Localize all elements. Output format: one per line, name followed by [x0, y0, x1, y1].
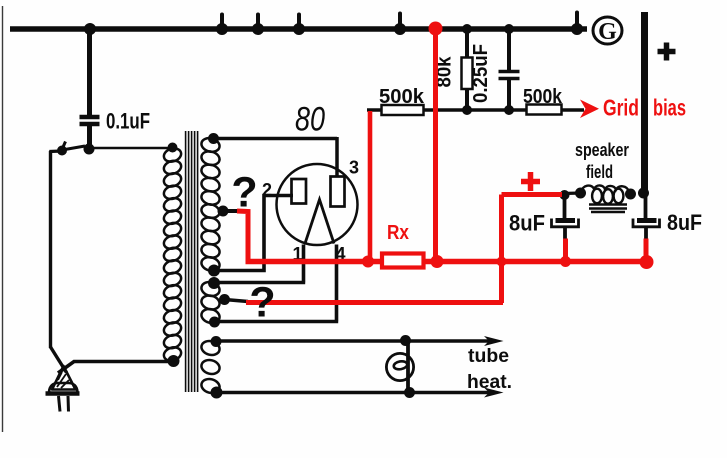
junction: lamp bottom: [404, 387, 415, 398]
red wire: 5V center tap line: [246, 300, 503, 305]
svg-text:G: G: [598, 19, 617, 45]
svg-text:8uF: 8uF: [509, 211, 545, 236]
svg-text:field: field: [586, 161, 613, 182]
junction: 5V winding top tap: [208, 277, 220, 289]
top bus stub tap 3: [297, 15, 301, 30]
junction: field coil left: [575, 188, 586, 199]
red wire: + line to filter caps: [502, 192, 563, 197]
junction: field coil right: [625, 189, 636, 200]
transformer T1 5V winding: [200, 280, 221, 298]
junction: bus at 0.25uF: [504, 24, 514, 34]
wire: top supply bus: [10, 26, 587, 32]
wire: heater top line: [216, 339, 489, 342]
resistor Rx body: [382, 254, 424, 268]
wire: 8uF right top lead: [644, 195, 648, 219]
wire: 80k bottom lead: [465, 88, 469, 110]
red wire: drop from top bus: [433, 29, 438, 262]
tube pin 3 plate: [331, 177, 345, 207]
red junction: top bus: [429, 22, 443, 36]
switch left terminal: [57, 146, 67, 156]
red junction: riser/B- bus: [497, 257, 507, 267]
wire: 0.25uF top lead: [507, 29, 511, 70]
top bus stub tap 1: [220, 15, 224, 30]
junction: 80k/grid line: [462, 105, 472, 115]
svg-text:?: ?: [249, 279, 275, 327]
wire: field coil left lead: [563, 191, 581, 195]
junction: 0.25uF/grid line: [504, 105, 514, 115]
svg-text:0.25uF: 0.25uF: [470, 44, 492, 103]
wire: 80k top lead: [465, 29, 469, 59]
transformer T1 core: [185, 131, 187, 392]
junction: bus tap 3: [293, 23, 305, 35]
svg-text:heat.: heat.: [467, 372, 512, 393]
resistor 500k (right) body: [527, 105, 562, 115]
wire: heater bottom line: [217, 391, 490, 394]
svg-text:Grid: Grid: [603, 95, 639, 121]
junction: heater winding bottom tap: [211, 387, 223, 399]
svg-text:8uF: 8uF: [667, 210, 702, 235]
polarity + (B+ top): [664, 43, 670, 61]
junction: primary bottom node: [168, 355, 180, 367]
transformer T1 heater winding: [200, 339, 221, 357]
meter G body: [593, 17, 622, 44]
junction: lamp top: [400, 335, 411, 346]
wire: pin 1 to 5V top tap: [214, 245, 305, 283]
red wire: HV center tap riser: [237, 211, 248, 262]
red junction: Rx left: [362, 256, 374, 268]
junction: filter node left: [560, 190, 570, 200]
inductor L1 core lines: [589, 203, 627, 206]
red junction: Rx right / drop: [431, 255, 444, 268]
transformer T1 HV secondary winding: [200, 136, 221, 154]
junction: HV secondary center tap (red): [218, 206, 229, 217]
svg-text:0.1uF: 0.1uF: [106, 109, 150, 134]
junction: bus tap 2: [252, 23, 264, 35]
junction: bus at 80k: [462, 24, 472, 34]
tube filament chevron: [305, 200, 334, 244]
wire: HV center tap stub: [223, 209, 239, 213]
junction: HV secondary top tap: [208, 133, 219, 144]
scan border left edge: [2, 6, 4, 432]
red wire: 8uF right bottom lead: [644, 239, 649, 262]
junction: field coil to bus: [638, 188, 649, 199]
junction: heater winding top tap: [211, 336, 222, 347]
wire: switch node to primary top: [89, 147, 172, 150]
AC plug P1: [52, 366, 76, 390]
capacitor 0.1uF plates: [80, 115, 100, 119]
top bus stub tap 2: [256, 15, 260, 30]
tube pin 2 plate: [292, 179, 307, 204]
wire: left vertical to plug: [49, 151, 52, 348]
junction: bus tap 1: [216, 23, 228, 35]
wire: 5V center tap stub (to red): [225, 300, 249, 302]
inductor L1 speaker field: [581, 185, 630, 192]
wire: pin 2 to HV bottom tap: [214, 196, 293, 271]
wire: pilot lamp branch: [406, 341, 410, 393]
svg-text:3: 3: [349, 158, 359, 178]
top bus stub tap 4: [398, 14, 402, 30]
junction: bus at 0.1uF drop: [84, 23, 96, 35]
wire: 0.25uF bottom lead: [507, 80, 511, 110]
transformer T1 primary winding: [162, 146, 183, 164]
red wire: riser to filter +: [499, 195, 504, 304]
red wire: grid-bias to Rx node: [368, 111, 373, 260]
top bus stub tap 5: [575, 13, 579, 30]
red wire: 8uF left bottom lead: [563, 239, 568, 262]
red polarity + (filter): [528, 172, 534, 191]
wire: HV top tap to tube pin 3: [214, 137, 338, 141]
wire: left corner to switch: [49, 149, 62, 153]
junction: 5V winding bottom tap: [209, 317, 220, 328]
capacitor 0.25uF plates: [499, 70, 520, 74]
red wire: main B- bus: [246, 259, 652, 265]
svg-text:?: ?: [231, 169, 257, 217]
svg-text:500k: 500k: [379, 86, 425, 108]
capacitor 8uF left plates: [556, 218, 576, 223]
arrow: heater bottom: [484, 388, 504, 398]
junction: HV secondary bottom tap: [208, 265, 220, 277]
wire: drop to capacitor 0.1uF: [87, 29, 92, 115]
wire: grid bias line: [367, 108, 584, 111]
junction: 5V winding center tap (red): [219, 294, 230, 305]
switch SW lever: [62, 146, 85, 150]
red arrow: grid bias: [580, 100, 599, 119]
svg-text:speaker: speaker: [575, 139, 629, 160]
junction: bus at G meter: [571, 23, 583, 35]
svg-text:500k: 500k: [523, 86, 563, 108]
capacitor 8uF right plates: [637, 218, 657, 223]
pilot lamp DS1: [386, 353, 413, 380]
junction: switch / cap node: [84, 144, 95, 155]
svg-text:tube: tube: [468, 346, 509, 367]
svg-text:80: 80: [295, 101, 325, 139]
red junction: 8uF left bottom: [560, 256, 571, 267]
rectifier tube 80 envelope: [277, 164, 358, 245]
wire: B+ thick bus: [641, 12, 648, 195]
wire: pin 4 to 5V bottom tap: [215, 245, 338, 322]
red junction: B- bus right end: [640, 255, 654, 269]
junction: primary top terminal: [168, 143, 178, 153]
arrow: heater top: [484, 336, 504, 346]
wire: plug to primary bottom: [58, 362, 174, 374]
resistor 500k (left) body: [382, 105, 424, 115]
wire: 8uF left top lead: [563, 195, 567, 219]
svg-text:Rx: Rx: [387, 222, 409, 244]
resistor 80k body: [462, 58, 473, 90]
svg-text:bias: bias: [653, 95, 686, 121]
junction: bus tap 4: [394, 23, 406, 35]
wire: 0.1uF to switch junction: [87, 126, 92, 150]
